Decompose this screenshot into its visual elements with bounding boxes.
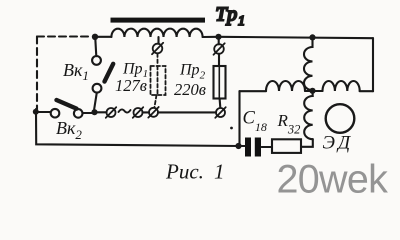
svg-text:Пр2: Пр2: [179, 62, 206, 82]
svg-text:220в: 220в: [174, 80, 206, 99]
switch Vk1: [92, 37, 113, 109]
node junction top of secondary: [309, 34, 315, 40]
svg-text:Вк2: Вк2: [56, 118, 82, 142]
terminal fuse Pr2 top: [214, 44, 224, 54]
fuse Pr1 dashed lead bottom: [155, 95, 157, 107]
fuse Pr1 dashed lead top: [157, 54, 159, 66]
transformer Tp1 core bar: [111, 18, 206, 23]
fuse Pr1 body: [151, 66, 166, 95]
wire left vertical to capacitor node: [238, 91, 240, 146]
wire resistor to capacitor: [262, 146, 273, 148]
svg-text:R32: R32: [277, 111, 301, 137]
node junction at Tp1 right: [215, 34, 221, 40]
speck dot: [230, 127, 233, 130]
wire left bottom border: [36, 109, 239, 146]
wire to primary coil: [95, 36, 111, 38]
motor winding right: [323, 81, 360, 91]
AC source symbol: [119, 109, 131, 112]
node junction windings: [309, 88, 315, 94]
terminal center tap: [153, 44, 163, 54]
wire node to capacitor: [239, 145, 246, 147]
motor winding left: [266, 81, 305, 91]
wire socket3 to socket4: [158, 111, 216, 113]
svg-text:20wek: 20wek: [277, 157, 389, 201]
wire winding to resistor: [301, 139, 313, 147]
wire between sockets: [143, 111, 150, 113]
fuse Pr2 lead: [218, 54, 220, 66]
motor ED body: [326, 104, 355, 133]
transformer Tp1 primary winding: [111, 29, 202, 37]
wire between windings: [305, 90, 323, 92]
wire top right run: [219, 37, 374, 38]
terminal socket 1: [107, 108, 116, 117]
svg-text:ЭД: ЭД: [323, 133, 354, 154]
fuse Pr2 body: [214, 66, 226, 99]
capacitor C18: [245, 138, 251, 157]
wire right edge vertical: [372, 38, 374, 91]
svg-text:Вк1: Вк1: [63, 60, 89, 83]
starting winding vertical: [304, 91, 313, 139]
fuse Pr2 lead from node: [218, 37, 220, 44]
svg-text:С18: С18: [243, 109, 267, 135]
fuse Pr2 lead bottom: [219, 99, 222, 108]
svg-text:Рис.1: Рис.1: [165, 159, 225, 183]
wire coil to top node: [203, 36, 219, 38]
wire to terminal 1: [95, 111, 107, 113]
terminal socket 2: [134, 108, 143, 117]
svg-text:Тр1: Тр1: [216, 4, 245, 29]
wire run left of windings: [240, 90, 267, 92]
node junction top-left: [92, 34, 98, 40]
resistor R32: [272, 139, 301, 153]
svg-text:127в: 127в: [115, 76, 147, 95]
terminal socket 3: [149, 108, 158, 117]
node junction bottom: [235, 143, 241, 149]
wire dashed top border: [37, 35, 90, 37]
transformer secondary winding vertical: [304, 37, 313, 90]
switch Vk2: [36, 100, 92, 118]
node junction switch row: [91, 109, 97, 115]
wire dashed left border: [36, 37, 38, 110]
wire to right edge: [360, 90, 373, 92]
node junction left border: [33, 109, 39, 115]
terminal socket 4: [216, 108, 225, 117]
wire center tap: [157, 37, 159, 44]
